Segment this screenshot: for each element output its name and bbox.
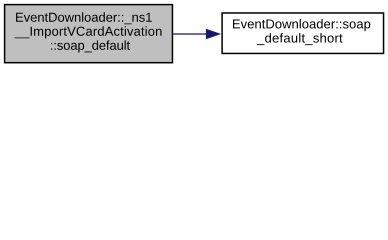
edge: call arrow wire [173, 33, 207, 35]
label line 1: EventDownloader::soap [233, 19, 370, 31]
label line 3: ::soap_default [51, 40, 130, 52]
label line 1: EventDownloader::_ns1 [16, 12, 152, 24]
node: EventDownloader::_ns1__ImportVCardActivation::soap_default (current node, grey filled) [5, 5, 173, 63]
label line 2: _default_short [257, 33, 343, 45]
node: EventDownloader::soap_default_short [222, 13, 383, 53]
edge: arrowhead [206, 29, 219, 38]
label line 2: __ImportVCardActivation [15, 26, 162, 38]
